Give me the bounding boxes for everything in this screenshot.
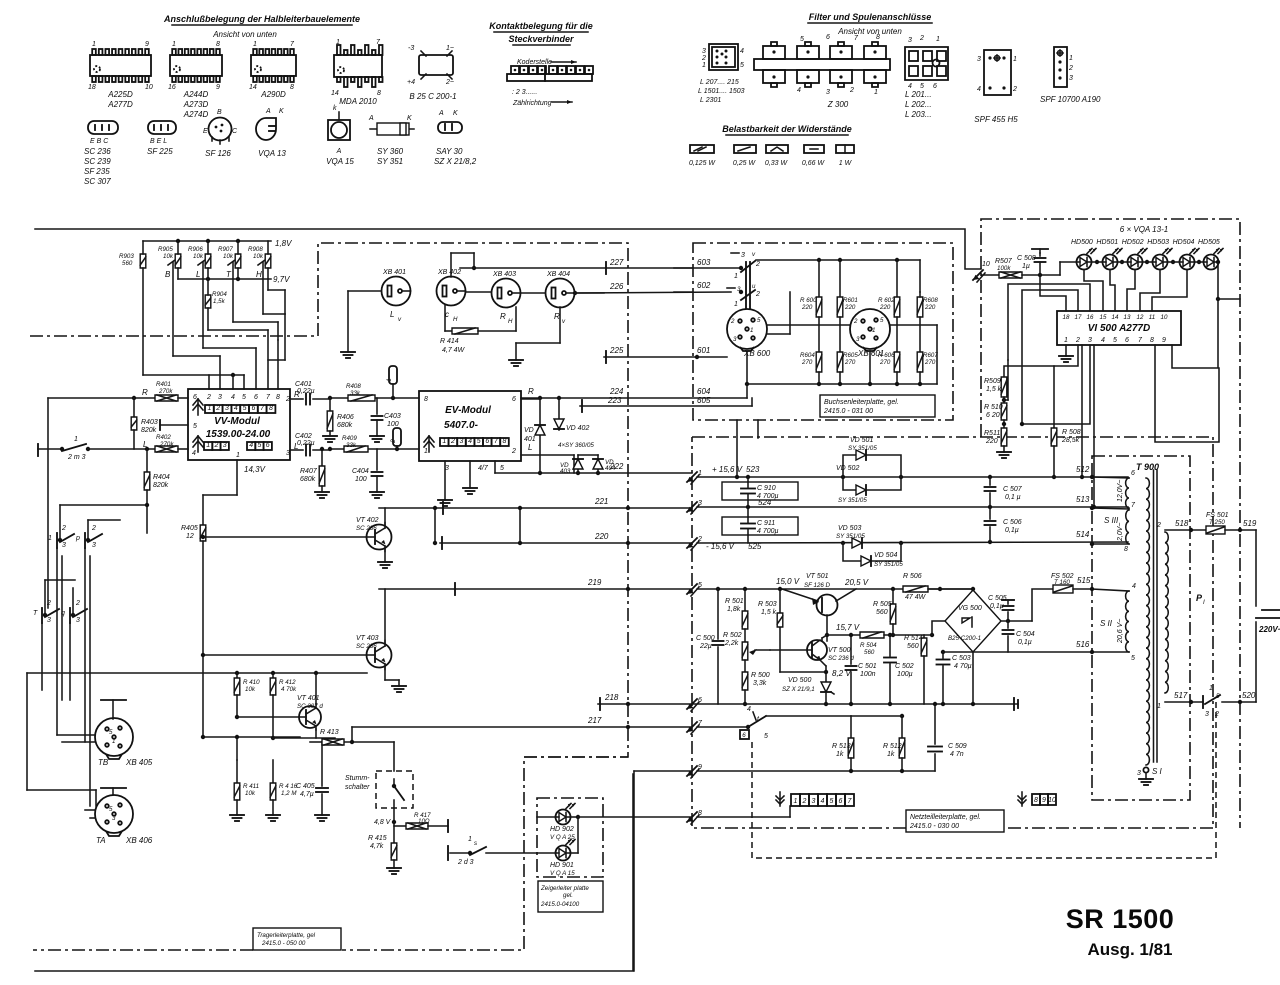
svg-text:0,25 W: 0,25 W [733,160,757,167]
svg-text:9: 9 [698,764,702,771]
svg-text:15,0 V: 15,0 V [776,577,800,586]
svg-text:Steckverbinder: Steckverbinder [508,34,574,44]
svg-text:C 500: C 500 [696,635,715,642]
svg-text:E B C: E B C [90,138,109,145]
svg-text:SY 351: SY 351 [377,157,403,166]
svg-text:T: T [33,610,38,617]
wire 517 line [1165,701,1203,703]
svg-text:R509: R509 [984,378,1001,385]
svg-text:18: 18 [88,84,96,91]
transistor VT403 [367,643,392,668]
svg-text:5: 5 [243,405,247,412]
resistor R406 [329,398,331,411]
resistor R504 [860,632,884,638]
wire 604 to XB600 [746,384,748,398]
label box Tragerleiterplatte [253,928,341,950]
module VV-Modul 1539.00-24.00 [188,389,290,460]
svg-text:SF 126 D: SF 126 D [804,582,831,589]
svg-text:C 503: C 503 [952,655,971,662]
wire VI pin1 ground [1065,345,1067,356]
svg-text:B: B [165,270,171,279]
svg-text:2: 2 [91,525,96,532]
LED HD500 [1077,255,1092,270]
svg-text:227: 227 [609,258,624,267]
svg-text:1: 1 [734,273,738,280]
svg-text:10k: 10k [253,253,264,260]
transistor VT501 [817,595,838,616]
wire right vert loop2 [1155,345,1219,442]
svg-text:K: K [453,110,458,117]
IC package A290D [251,55,296,76]
svg-text:6: 6 [826,34,830,41]
wire VT402 collector [384,508,386,525]
wire 727 switch [697,726,748,728]
LED HD902 [556,810,571,825]
svg-text:SAY 30: SAY 30 [436,147,463,156]
wire 605 stub [751,398,753,406]
svg-text:680k: 680k [300,476,316,483]
wire R405 column [202,495,204,525]
svg-text:Anschlußbelegung der Halbleite: Anschlußbelegung der Halbleiterbauelemen… [163,14,360,24]
svg-text:A244D: A244D [183,90,209,99]
svg-text:R 514: R 514 [904,635,923,642]
svg-text:22µ: 22µ [699,643,712,650]
IC package MDA2010 [334,55,382,77]
svg-text:219: 219 [587,578,602,587]
transistor outline SF225 [148,121,176,134]
svg-text:HD502: HD502 [1122,239,1144,246]
svg-text:28,5k: 28,5k [1061,437,1080,444]
resistor symbol 0,25W [734,145,756,153]
svg-text:3: 3 [76,617,80,624]
svg-text:C404: C404 [352,468,369,475]
svg-text:220: 220 [594,532,609,541]
wire switch drops [59,505,61,540]
svg-text:518: 518 [1175,519,1189,528]
wire 523-512 rail [697,476,1128,478]
svg-text:5: 5 [880,317,884,324]
svg-text:XB 404: XB 404 [546,271,570,278]
svg-text:SC 239: SC 239 [84,157,111,166]
svg-text:560: 560 [876,609,888,616]
svg-text:Kontaktbelegung für die: Kontaktbelegung für die [489,21,593,31]
wire TA connections [85,809,95,811]
svg-text:225: 225 [609,346,624,355]
svg-text:FS 501: FS 501 [1206,512,1229,519]
svg-text:VQA 13: VQA 13 [258,149,286,158]
wire twin cable to XB600 [745,262,747,308]
svg-text:2: 2 [701,55,706,62]
svg-text:R907: R907 [218,246,233,253]
svg-text:0,66 W: 0,66 W [802,160,826,167]
wire 217 drop to R413 [351,727,353,742]
svg-text:R 502: R 502 [723,632,742,639]
svg-text:XB 403: XB 403 [492,271,516,278]
svg-text:2: 2 [849,87,854,94]
svg-text:14: 14 [1112,314,1119,321]
svg-text:3: 3 [92,542,96,549]
wire 219 bus [379,588,692,590]
svg-text:A: A [336,148,342,155]
svg-text:1 W: 1 W [839,160,853,167]
wire 524-513 rail [697,506,1128,508]
svg-text:6: 6 [254,394,258,401]
wire stumm out [393,808,395,822]
svg-text:L 2301: L 2301 [700,97,721,104]
svg-text:Stumm-: Stumm- [345,775,370,782]
capacitor C403 [376,398,378,414]
wire 9.7V drop [267,279,269,290]
svg-text:221: 221 [594,497,608,506]
svg-text:Netzteilleiterplatte, gel.: Netzteilleiterplatte, gel. [910,814,981,821]
svg-text:5: 5 [1216,693,1220,700]
svg-text:HD504: HD504 [1173,239,1195,246]
svg-text:1: 1 [48,535,52,542]
wire VT403 base [203,654,366,656]
svg-text:1: 1 [698,470,702,477]
svg-text:HD501: HD501 [1096,239,1118,246]
svg-text:20,6 V~: 20,6 V~ [1117,619,1124,644]
svg-text:4: 4 [1101,337,1105,344]
wire VT402 emitter [384,549,386,562]
resistor R903 [140,254,146,268]
winding SII [1126,591,1129,652]
svg-text:560: 560 [122,260,133,267]
svg-text:8: 8 [1150,337,1154,344]
svg-text:11: 11 [1149,314,1155,321]
board outline Frontplatte dash-dot [981,219,1240,828]
svg-text:C 507: C 507 [1003,486,1023,493]
svg-text:I: I [1203,599,1205,606]
svg-text:1k: 1k [887,751,895,758]
svg-text:R903: R903 [119,253,134,260]
svg-text:3: 3 [62,542,66,549]
svg-text:VT 402: VT 402 [356,517,379,524]
wire base drive loop [779,589,781,613]
capacitor C911 block [722,517,798,535]
svg-text:L 202...: L 202... [905,100,932,109]
svg-text:5: 5 [477,438,481,445]
resistor symbol 0,125W [690,145,714,153]
wire 227 bus [460,267,741,269]
svg-text:9,7V: 9,7V [273,275,290,284]
svg-text:1µ: 1µ [1022,263,1030,270]
capacitor C504 [1007,621,1009,628]
svg-text:VV-Modul: VV-Modul [214,416,260,427]
svg-text:A: A [368,115,374,122]
svg-text:8: 8 [1124,546,1128,553]
svg-text:6: 6 [512,396,516,403]
svg-text:3: 3 [908,37,912,44]
svg-text:3: 3 [702,48,706,55]
resistor R509 [1001,377,1007,397]
fuse FS502 [1053,585,1073,593]
switch power t [746,725,750,729]
switch 1s 2d3 [450,852,470,854]
wire VI pin3 down [1022,345,1090,424]
svg-text:4: 4 [192,450,196,457]
resistor R505 [892,589,894,604]
svg-text:L 201...: L 201... [905,90,932,99]
svg-text:10: 10 [982,261,990,268]
svg-text:SC 236: SC 236 [356,525,377,532]
svg-text:1: 1 [92,41,96,48]
svg-text:47 4W: 47 4W [905,594,927,601]
wire XB401 ground drop [348,290,381,292]
transformer core [1153,470,1155,762]
socket XB 403 [492,279,521,308]
svg-text:SC 307 d: SC 307 d [297,703,323,710]
svg-text:TB: TB [98,758,109,767]
svg-text:SF 235: SF 235 [84,167,110,176]
svg-text:515: 515 [1077,576,1091,585]
svg-text:220V~: 220V~ [1258,625,1280,634]
winding SIII lower [1126,510,1129,544]
svg-text:2: 2 [75,600,80,607]
svg-text:2: 2 [1156,522,1161,529]
svg-text:4,7k: 4,7k [370,843,384,850]
switch v [731,252,739,254]
bridge rectifier VG500 [945,590,1001,652]
capacitor C508 [1039,253,1041,256]
wire bridge AC top to FS502 [1032,589,1053,621]
wire VT501 base down [826,615,828,641]
winding S1 long [1146,478,1149,765]
svg-text:270: 270 [844,359,856,366]
svg-text:Ausg. 1/81: Ausg. 1/81 [1087,940,1172,959]
wire VT403 emitter [384,667,386,680]
resistor R413 [322,739,344,745]
svg-text:2: 2 [1214,711,1219,718]
svg-text:5: 5 [193,423,197,430]
svg-text:HD 902: HD 902 [550,826,574,833]
svg-text:1k: 1k [836,751,844,758]
svg-text:1539.00-24.00: 1539.00-24.00 [206,429,271,440]
mechanical link dashed [752,700,1216,858]
resistor R503 [777,613,783,627]
svg-text:519: 519 [1243,519,1257,528]
svg-text:270k: 270k [159,441,174,448]
svg-text:220: 220 [844,304,856,311]
svg-text:A225D: A225D [107,90,133,99]
resistor R409 [344,446,368,452]
resistor R604 [818,317,820,352]
svg-text:VD 402: VD 402 [566,425,589,432]
svg-text:VI 500 A277D: VI 500 A277D [1088,323,1150,334]
resistor R417 [394,825,406,827]
svg-text:2415.0 - 050 00: 2415.0 - 050 00 [261,940,306,947]
board outline T900 dash-dot [1092,456,1190,800]
IC package A244D [170,55,222,76]
svg-text:T 250: T 250 [1209,519,1225,526]
resistor R508 [1053,366,1055,428]
svg-text:SY 351/05: SY 351/05 [838,497,867,504]
svg-text:SR 1500: SR 1500 [1066,904,1175,934]
svg-text:3: 3 [856,336,860,343]
svg-text:1: 1 [424,448,428,455]
wire top border [35,229,981,269]
svg-text:C 501: C 501 [858,663,877,670]
svg-text:2: 2 [206,394,211,401]
svg-text:s: s [474,840,477,847]
connector F4-1 [389,366,397,384]
resistor R502 trimmer [744,629,746,642]
wire horizontal 673 [27,672,367,674]
wire 589 rail [697,588,973,590]
wire bridge left [932,621,945,635]
LED HD503 [1153,255,1168,270]
wire ground rail 704 [692,703,1018,705]
wire LED joins [571,816,578,818]
wire 218 bus [598,703,692,705]
svg-text:R 508: R 508 [1062,429,1081,436]
wire TB connections [57,734,95,736]
switch row2 a [41,608,43,623]
wire 1.8V rail [143,240,271,242]
svg-text:10: 10 [1048,797,1056,804]
svg-text:15: 15 [1100,314,1107,321]
svg-text:3: 3 [812,798,816,805]
svg-text:C 505: C 505 [988,595,1007,602]
svg-text:680k: 680k [337,422,353,429]
wire 602 entry [674,291,693,293]
diode VD500 zener [821,682,831,692]
resistor R906 [205,254,211,268]
resistor R506 [903,586,928,592]
resistor symbol 1W [836,145,854,153]
svg-text:L: L [294,442,298,451]
resistor R403 [133,398,135,417]
wire pin17 left [1022,290,1078,424]
svg-text:6 20: 6 20 [986,412,1000,419]
svg-text:R403: R403 [141,419,158,426]
wire switch out [766,715,851,717]
svg-text:10k: 10k [245,686,256,693]
coil package L207-215 [709,44,738,70]
filter Z300 [754,59,890,70]
svg-text:R 600: R 600 [800,297,817,304]
fuse FS501 [1206,526,1225,534]
svg-text:R 510: R 510 [984,404,1003,411]
LED HD504 [1180,255,1195,270]
connector arrow 8 [687,812,697,822]
svg-text:H: H [453,316,458,323]
capacitor C501 [850,635,852,664]
svg-text:3: 3 [225,405,229,412]
resistor R607 [919,317,921,352]
resistor R904 [205,295,211,308]
svg-text:P: P [1196,593,1203,603]
wire 223 bus [580,405,752,407]
svg-text:Tragerleiterplatte, gel: Tragerleiterplatte, gel [257,932,316,939]
svg-text:SF 126: SF 126 [205,149,231,158]
svg-text:VD 504: VD 504 [874,552,897,559]
svg-text:8: 8 [698,810,702,817]
wire 220 bus [440,542,692,544]
svg-text:4 70µ: 4 70µ [954,663,972,670]
svg-text:2415.0 - 031 00: 2415.0 - 031 00 [823,408,873,415]
wire HD505 right loop [1172,262,1218,368]
svg-text:9: 9 [145,41,149,48]
svg-text:10k: 10k [223,253,234,260]
socket XB600 [727,309,767,349]
svg-text:601: 601 [697,346,710,355]
svg-text:1: 1 [336,39,340,46]
svg-text:R 513: R 513 [832,743,851,750]
resistor R404 [146,449,148,472]
wire 603 entry [674,267,693,269]
svg-text:14: 14 [331,90,339,97]
svg-text:1: 1 [1069,55,1073,62]
svg-text:2415.0-04100: 2415.0-04100 [540,901,580,908]
svg-text:C 506: C 506 [1003,519,1022,526]
svg-text:6: 6 [933,83,937,90]
svg-text:1: 1 [172,41,176,48]
svg-text:2: 2 [919,35,924,42]
svg-text:R 411: R 411 [243,783,259,790]
wire bridge AC bottom 516 [973,651,1092,653]
resistor R412 [270,678,276,695]
svg-text:10k: 10k [193,253,204,260]
connector arrow 2 -15.6V [687,538,697,548]
svg-text:H: H [256,270,262,279]
svg-text:224: 224 [609,387,624,396]
svg-text:L: L [196,270,200,279]
capacitor C503 [942,652,944,658]
svg-text:HD500: HD500 [1071,239,1093,246]
svg-text:VD: VD [524,427,534,434]
svg-text:4 700µ: 4 700µ [757,493,779,500]
svg-text:270k: 270k [158,388,173,395]
resistor symbol 0,33W [766,145,788,153]
svg-text:3: 3 [286,450,290,457]
wire buchsen drop 1 [736,420,738,477]
svg-text:H: H [508,318,513,325]
wire VT500 emitter 8.2V [820,660,826,666]
switch row1 a [56,533,58,548]
wire EV pin4-7 ground [469,461,471,488]
resistor R513 [850,716,852,738]
svg-text:R511: R511 [984,430,1000,437]
svg-text:4 700µ: 4 700µ [757,528,779,535]
wire bridge right [1001,620,1032,622]
svg-text:9: 9 [1162,337,1166,344]
resistor R414 [445,330,452,332]
svg-text:R405: R405 [181,525,198,532]
svg-text:SY 360: SY 360 [377,147,404,156]
svg-text:2,0V~: 2,0V~ [1117,523,1124,543]
wire EV pin3 ground [444,461,446,500]
svg-text:2: 2 [755,291,760,298]
svg-text:L 203...: L 203... [905,110,932,119]
svg-text:3: 3 [826,89,830,96]
svg-text:R402: R402 [156,434,171,441]
socket XB 402 [437,277,466,306]
svg-text:R605: R605 [843,352,858,359]
resistor symbol 0,66W [804,145,824,153]
socket XB 404 [546,279,575,308]
IC package A225D [90,55,151,76]
wire R feed left [47,398,49,608]
wire VT402 base [203,536,366,538]
resistor R511 [1003,420,1005,428]
svg-text:525: 525 [748,542,762,551]
svg-text:1,8k: 1,8k [727,606,741,613]
socket XB 401 [382,277,411,306]
svg-text:T 900: T 900 [1136,462,1159,472]
svg-text:270: 270 [801,359,813,366]
svg-text:XB 405: XB 405 [125,758,153,767]
